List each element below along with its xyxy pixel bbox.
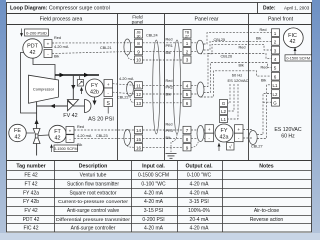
svg-text:42a: 42a: [220, 134, 229, 140]
svg-text:Blk: Blk: [239, 63, 244, 67]
svg-text:CBL24: CBL24: [146, 34, 158, 38]
svg-text:Reverse action: Reverse action: [250, 217, 284, 223]
terminal JB16: [135, 144, 143, 151]
table row FT 42: [25, 181, 210, 187]
svg-text:Blk: Blk: [256, 37, 261, 41]
svg-text:PDT 42: PDT 42: [23, 217, 40, 223]
svg-text:60 Hz: 60 Hz: [232, 72, 242, 77]
svg-text:FIC: FIC: [288, 33, 297, 39]
table row FIC 42: [23, 226, 209, 232]
svg-text:√: √: [229, 144, 232, 151]
FY 42b output signal to actuator: [93, 97, 97, 105]
cable oval CBL22: [127, 82, 134, 96]
svg-text:4-20 mA: 4-20 mA: [144, 190, 164, 196]
FIC range arrow: [294, 48, 296, 57]
wire TB2 to FIC2: [191, 41, 272, 51]
svg-text:9: 9: [186, 145, 189, 150]
svg-text:8: 8: [186, 137, 189, 142]
cable oval CBL27: [249, 131, 257, 145]
svg-text:4-20 mA: 4-20 mA: [190, 226, 210, 232]
wire JB10-TB3 shield: [143, 59, 184, 61]
CBL24 shield drain to ground: [171, 134, 177, 153]
svg-text:7: 7: [186, 128, 189, 133]
svg-text:4: 4: [186, 83, 189, 88]
svg-text:FY 42a: FY 42a: [23, 190, 39, 196]
terminal FIC G: [272, 98, 280, 106]
svg-text:Red: Red: [261, 65, 268, 69]
table row FY 42a: [23, 190, 209, 196]
svg-text:PR1: PR1: [166, 44, 173, 48]
terminal TB4: [183, 82, 191, 89]
FY 42a output terminals: [235, 125, 244, 142]
range box 0-1500 SCFM (FT): [51, 145, 78, 152]
svg-text:Red: Red: [77, 125, 84, 129]
terminal FIC6: [272, 72, 280, 80]
svg-text:3: 3: [186, 58, 189, 63]
wire CBL26 shield to FIC6: [201, 71, 272, 97]
PDT 42 terminals + / -: [44, 40, 52, 58]
multicore cable CBL24 panel-side oval: [173, 40, 180, 134]
svg-text:1: 1: [274, 31, 277, 36]
square root extractor FY 42a: [215, 124, 233, 142]
cable oval CBL21: [124, 39, 131, 55]
svg-text:16: 16: [136, 145, 142, 150]
table header row: [16, 164, 273, 170]
actuator diaphragm (D shape): [85, 100, 92, 113]
wire JB15-TB8 pair PR3 Blk: [143, 138, 184, 140]
terminal FIC L1: [272, 81, 280, 89]
cable oval CBL25: [197, 40, 204, 54]
svg-text:Blk: Blk: [54, 55, 59, 59]
valve stem to actuator: [73, 105, 85, 107]
svg-text:+: +: [237, 127, 240, 132]
svg-text:Differential pressure transmit: Differential pressure transmitter: [56, 217, 131, 222]
terminal FIC L2: [272, 90, 280, 98]
svg-text:42b: 42b: [90, 89, 99, 95]
svg-text:Output cal.: Output cal.: [185, 164, 213, 170]
svg-text:Field process area: Field process area: [40, 16, 83, 22]
svg-text:Panel rear: Panel rear: [195, 16, 219, 22]
svg-text:L2: L2: [273, 92, 278, 97]
cable oval CBL26: [197, 82, 204, 97]
compressor: [29, 75, 59, 103]
svg-text:42: 42: [55, 135, 61, 141]
svg-text:8: 8: [137, 41, 140, 46]
terminal TB1: [183, 39, 191, 46]
svg-text:1: 1: [186, 41, 189, 46]
svg-text:9: 9: [137, 49, 140, 54]
svg-text:CBL27: CBL27: [251, 145, 263, 149]
svg-text:6: 6: [186, 101, 189, 106]
multicore cable CBL24 field-side oval: [153, 40, 160, 134]
wire FY42b+ to JB11: [113, 84, 135, 86]
svg-text:Anti-surge controller: Anti-surge controller: [71, 226, 116, 232]
FY 42b air supply S box: [104, 99, 113, 114]
power feed wires from ES: [228, 84, 239, 119]
wire FY42b- to JB12: [113, 92, 135, 94]
controller FIC 42: [283, 28, 303, 48]
terminal JB12: [135, 90, 143, 97]
svg-text:+: +: [47, 42, 50, 47]
suction pipe lower: [36, 144, 38, 156]
power terminal L2: [220, 108, 228, 115]
svg-text:FE: FE: [14, 128, 21, 134]
terminal block TB label: [183, 30, 191, 39]
svg-text:FY: FY: [221, 128, 228, 134]
table row PDT 42: [23, 217, 284, 223]
terminal TB3: [183, 56, 191, 63]
svg-text:Blk: Blk: [261, 78, 266, 82]
wires TB7/TB8 to FY42a: [191, 130, 205, 139]
transmitter FT 42: [39, 125, 67, 142]
svg-text:PDT: PDT: [27, 44, 38, 50]
wires FY42a out to CBL27: [243, 130, 252, 139]
svg-text:Venturi tube: Venturi tube: [80, 173, 107, 179]
table row FV 42: [24, 208, 279, 214]
wire CBL25 shield to FIC3: [200, 44, 272, 53]
table row FE 42: [24, 173, 211, 179]
svg-text:L2: L2: [221, 109, 227, 114]
svg-text:+: +: [107, 82, 110, 87]
svg-text:April 1, 2003: April 1, 2003: [284, 6, 310, 11]
svg-text:4-20 mA: 4-20 mA: [190, 190, 210, 196]
svg-text:5: 5: [186, 92, 189, 97]
svg-text:+: +: [208, 127, 211, 132]
svg-text:Blk: Blk: [166, 92, 171, 96]
svg-text:G: G: [273, 101, 277, 106]
table grid: [7, 161, 312, 233]
svg-text:Anti-surge control valve: Anti-surge control valve: [67, 208, 119, 214]
wire JB9-TB2 pair PR1 Blk: [143, 50, 184, 52]
svg-text:FY: FY: [91, 83, 98, 89]
transmitter PDT 42: [23, 39, 42, 58]
recycle line down to FV-42: [72, 76, 74, 100]
svg-text:Red: Red: [166, 79, 173, 83]
wire JB16-TB9 shield: [143, 146, 184, 148]
svg-text:0-100 "WC: 0-100 "WC: [141, 181, 166, 187]
terminal TB2: [183, 48, 191, 55]
svg-text:11: 11: [136, 83, 141, 88]
impulse line PDT high side to discharge pipe: [33, 58, 55, 81]
valve FV 42 (angle valve): [68, 100, 79, 111]
terminal FIC2: [272, 38, 280, 46]
wire JB14-TB7 pair PR3 Red: [143, 129, 184, 131]
svg-text:4: 4: [274, 57, 277, 62]
svg-text:PR2: PR2: [166, 86, 173, 90]
range box 0-200 PSID: [21, 29, 49, 37]
wire JB11-TB4 pair PR2 Red: [143, 84, 184, 86]
svg-text:30: 30: [137, 34, 141, 38]
recycle line to suction: [37, 105, 68, 107]
wire JB13-TB6 shield: [143, 102, 184, 104]
table row FY 42b: [23, 199, 209, 205]
range box 0-1500 SCFM (FIC): [285, 55, 312, 61]
svg-text:Square root extractor: Square root extractor: [70, 190, 117, 196]
svg-text:3-15 PSI: 3-15 PSI: [144, 208, 163, 214]
svg-text:2: 2: [274, 40, 277, 45]
converter FY 42b: [86, 79, 104, 97]
cable oval CBL23: [124, 130, 131, 146]
svg-text:42: 42: [15, 134, 21, 140]
terminal FIC3: [272, 46, 280, 54]
terminal JB13: [135, 99, 143, 106]
terminal JB14: [135, 126, 143, 133]
svg-text:4-20 mA: 4-20 mA: [54, 45, 69, 49]
svg-text:6: 6: [274, 74, 277, 79]
terminal TB7: [183, 126, 191, 133]
svg-text:Compressor: Compressor: [33, 87, 55, 92]
wire JB8-TB1 pair PR1 Red: [143, 42, 184, 44]
svg-text:Blk: Blk: [166, 51, 171, 55]
flow element FE 42 bubble: [9, 124, 34, 141]
venturi FE 42: [33, 129, 40, 144]
svg-text:L1: L1: [221, 117, 227, 122]
wire TB1 to FIC1: [191, 33, 272, 44]
terminal JB15: [135, 135, 143, 142]
wire PDT+ to JB8 (Red): [52, 42, 135, 44]
terminal FIC1: [272, 29, 280, 37]
power wires CBL27 to FIC L1 L2 G: [257, 85, 272, 139]
svg-text:CBL23: CBL23: [96, 134, 108, 138]
svg-text:13: 13: [136, 101, 142, 106]
svg-text:0-1500 SCFM: 0-1500 SCFM: [138, 173, 169, 179]
svg-text:Red: Red: [166, 38, 173, 42]
svg-text:CBL21: CBL21: [100, 46, 112, 50]
wire FT+ to JB14 (Red): [74, 129, 135, 131]
svg-text:FV 42: FV 42: [63, 113, 77, 119]
svg-text:3-15 PSI: 3-15 PSI: [189, 199, 208, 205]
svg-text:20-4 mA: 20-4 mA: [190, 217, 210, 223]
CBL23 shield drain to JB16: [127, 146, 134, 148]
svg-text:Suction flow transmitter: Suction flow transmitter: [67, 181, 119, 187]
svg-text:60 Hz: 60 Hz: [281, 134, 295, 140]
svg-text:+: +: [69, 128, 72, 133]
wire PDT- to JB9 (Blk): [52, 51, 135, 53]
svg-text:G: G: [222, 101, 226, 106]
svg-text:Current-to-pressure converter: Current-to-pressure converter: [58, 199, 129, 204]
svg-text:Loop Diagram: Compressor surge: Loop Diagram: Compressor surge control: [10, 5, 110, 11]
svg-text:10: 10: [136, 58, 142, 63]
FT 42 terminals + / -: [66, 127, 74, 143]
svg-text:PR3: PR3: [166, 129, 173, 133]
svg-text:4-20 mA: 4-20 mA: [190, 181, 210, 187]
terminal JB9: [135, 48, 143, 55]
svg-text:FT 42: FT 42: [25, 181, 38, 187]
svg-text:Air-to-close: Air-to-close: [254, 208, 280, 214]
junction box JB 30 label: [135, 30, 143, 39]
svg-text:ES 120VAC: ES 120VAC: [274, 127, 302, 133]
terminal JB11: [135, 82, 143, 89]
svg-text:0-200 PSI: 0-200 PSI: [142, 217, 164, 223]
svg-text:42: 42: [30, 50, 36, 56]
wire JB12-TB5 pair PR2 Blk: [143, 93, 184, 95]
svg-text:FE 42: FE 42: [24, 173, 38, 179]
TB9 shield stub: [191, 141, 199, 147]
discharge pipe: [55, 74, 99, 76]
svg-text:0-100 "WC: 0-100 "WC: [187, 173, 212, 179]
CBL21 shield drain to JB10: [127, 55, 134, 60]
terminal FIC5: [272, 64, 280, 72]
impulse line PDT low side to suction pipe: [21, 53, 37, 114]
svg-text:0-1500 SCFM: 0-1500 SCFM: [286, 57, 310, 61]
FY 42b terminals + / -: [104, 80, 113, 97]
terminal TB5: [183, 90, 191, 97]
recycle flow arrow left: [50, 104, 55, 108]
svg-text:2: 2: [186, 49, 189, 54]
terminal FIC4: [272, 55, 280, 63]
power terminal G: [220, 100, 228, 107]
svg-text:Red: Red: [166, 123, 173, 127]
svg-text:3: 3: [274, 48, 277, 53]
svg-text:Tag number: Tag number: [16, 164, 45, 170]
svg-text:14: 14: [136, 128, 142, 133]
svg-text:15: 15: [136, 137, 142, 142]
terminal JB8: [135, 39, 143, 46]
svg-text:FY 42b: FY 42b: [23, 199, 39, 205]
FY 42a arrow: [218, 144, 220, 152]
svg-text:100%-0%: 100%-0%: [188, 208, 210, 214]
svg-text:4-20 mA: 4-20 mA: [119, 77, 134, 81]
svg-text:Input cal.: Input cal.: [142, 164, 165, 170]
wire TB5 to FIC5: [191, 63, 272, 95]
svg-text:Date:: Date:: [263, 6, 276, 12]
terminal TB8: [183, 135, 191, 142]
svg-text:4-20 mA: 4-20 mA: [144, 199, 164, 205]
power terminal L1: [220, 116, 228, 123]
svg-text:0-200 PSID: 0-200 PSID: [26, 30, 47, 35]
svg-text:CBL26: CBL26: [221, 55, 233, 59]
discharge flow arrows: [60, 73, 90, 78]
svg-text:42: 42: [290, 39, 296, 45]
recycle flow arrow down: [71, 85, 75, 90]
svg-text:4-20 mA: 4-20 mA: [77, 134, 92, 138]
ground symbol: [166, 154, 177, 159]
CBL22 shield drain to JB13: [130, 96, 135, 103]
terminal TB9: [183, 144, 191, 151]
suction flow arrow up: [35, 119, 39, 124]
svg-text:Red: Red: [260, 28, 267, 32]
svg-text:Description: Description: [79, 164, 108, 170]
cable oval to FY42a: [197, 126, 204, 142]
svg-text:Blk: Blk: [77, 143, 82, 147]
FY 42a square root box: [227, 143, 235, 151]
terminal JB10: [135, 56, 143, 63]
svg-text:4-20 mA: 4-20 mA: [144, 226, 164, 232]
svg-text:CBL22: CBL22: [117, 95, 129, 99]
svg-text:12: 12: [136, 92, 142, 97]
FY 42a input terminals: [205, 125, 214, 142]
svg-text:Panel front: Panel front: [268, 16, 294, 22]
svg-text:FIC 42: FIC 42: [23, 226, 38, 232]
fail-mode up arrow: [80, 88, 82, 94]
svg-text:FV 42: FV 42: [24, 208, 38, 214]
wire TB4 to FIC4: [191, 54, 272, 87]
wire FT- to JB15 (Blk): [74, 138, 135, 140]
svg-text:panel: panel: [132, 19, 144, 25]
svg-text:Red: Red: [239, 46, 246, 50]
svg-text:Red: Red: [54, 36, 61, 40]
svg-text:Notes: Notes: [259, 164, 274, 170]
suction pipe upper: [36, 102, 38, 129]
svg-text:AS 20 PSI: AS 20 PSI: [88, 117, 114, 123]
svg-text:0-1500 SCFM: 0-1500 SCFM: [54, 147, 78, 151]
svg-text:FT: FT: [54, 129, 61, 135]
svg-text:27: 27: [185, 34, 189, 38]
terminal TB6: [183, 99, 191, 106]
svg-text:5: 5: [274, 66, 277, 71]
valve fail-mode indicator box: [77, 76, 83, 86]
svg-text:L1: L1: [273, 83, 278, 88]
svg-text:Blk: Blk: [166, 136, 171, 140]
svg-text:ES 120VAC: ES 120VAC: [227, 78, 248, 83]
